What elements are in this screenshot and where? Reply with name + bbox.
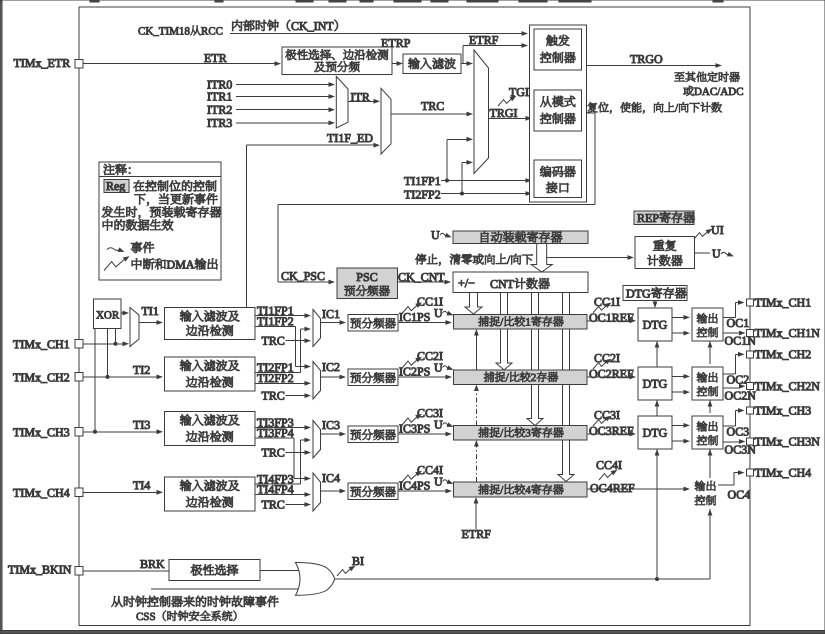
wire TI2 [79,376,157,378]
text 输出控制 4 [695,481,705,491]
wire XOR out [121,312,123,314]
label TRC ch4 [262,501,269,509]
interrupt UI [694,227,714,239]
wire to OR gate [260,570,299,572]
wire TI2FP2 riser [461,162,463,193]
rail OC3 to OC2 control [709,400,711,413]
wire TI2FP2 [441,193,526,195]
label OC4REF [591,484,599,492]
label IC4PS [399,482,402,490]
box DTG3 [638,416,672,449]
label TIMx_CH2 [755,350,762,358]
box 极性选择、边沿检测及预分频 [282,47,392,75]
wire TRGI [489,117,527,119]
label 复位，使能，向上/向下计数 [588,102,598,112]
label CC1I right [595,298,602,306]
label TI2 [133,366,140,374]
wire OC2N [723,387,740,389]
wires DTG1 to output control [672,316,684,318]
wire IC2PS [398,376,446,378]
label ETRP [381,39,387,47]
label IC2 [322,363,325,371]
label ETR [204,54,210,62]
label ETRF [469,36,475,44]
pad TIMx_CH2N [747,383,754,390]
wire IC4PS [398,490,446,492]
pad TIMx_BKIN [75,567,83,575]
mux ITR select [336,76,348,128]
label TI1FP1 [404,177,411,185]
wire TI1FP1 to IC1 [255,315,305,317]
label TI1 [142,307,149,315]
mux TRC select [381,88,391,154]
wire IC4 out [321,490,341,492]
label CC4I right [597,461,604,469]
interrupt CC4I left [402,469,423,482]
wire CK_INT [230,33,522,35]
event U ch2 [434,364,442,372]
label box REP寄存器 [634,211,694,225]
pad TIMx_CH2 [747,351,754,358]
interrupt CC2I left [402,355,423,368]
wire TI4FP3 cross to IC3 [255,483,301,485]
event U ch3 [434,421,442,429]
label ITR3 [207,119,210,127]
hollow arrow ARR to CNT [531,244,552,273]
label OC1REF [590,314,598,322]
label OC2N [725,392,733,400]
label TIMx_CH2N [755,382,762,390]
wire TRC ch4 [286,504,306,506]
rail brake to DTGs [656,449,658,579]
label 停止，清零或向上/向下 [415,254,426,265]
label TIMx_CH1N [755,329,762,337]
wire TRC [391,113,467,115]
pad TIMx_CH3 [747,407,754,414]
label TI2FP1 [257,364,264,372]
box CNT计数器 [453,272,588,293]
pad TIMx_CH4 [747,469,754,476]
wire TI4FP4 to IC4 [255,494,305,496]
box 重复计数器 [635,237,695,269]
label BRK [140,560,147,568]
label IC1PS [399,313,402,321]
note Reg register symbol [104,180,129,193]
box 预分频器 ch4 [348,483,398,500]
wire IC3PS [398,433,446,435]
hollow arrow CNT to CC1 [465,293,482,315]
mux TI1 [130,308,139,347]
label UI [711,226,719,234]
box 编码器接口 [534,160,582,198]
label OC2 [727,376,735,384]
XOR input risers [94,329,96,432]
wire CSS [151,588,303,590]
label TIMx_ETR [14,59,21,67]
wire ETRF to trigger controller [462,46,464,64]
label IC4 [322,474,325,482]
dashed arrow CC3 to CC2 [475,390,477,426]
interrupt CC3I right [593,414,613,426]
event U into ARR [431,231,439,239]
label CC2I right [595,354,602,362]
label IC1 [322,310,325,318]
label TIMx_CH2 [13,374,20,382]
wire ITR3 [236,122,329,124]
wire TI2FP2 to IC2 [255,382,305,384]
wire BI rail [335,578,710,580]
label box DTG寄存器 [623,286,687,301]
note text line3 发生时，预装载寄存器 [102,206,113,217]
wire TRGO [587,65,717,67]
wire TIMx_CH1 to mux [79,343,123,345]
label CC3I right [595,411,602,419]
label TRC ch3 [262,449,269,457]
label TI2FP2 [404,191,411,199]
box 预分频器 ch1 [348,315,398,332]
label 至其他定时器 [675,72,685,81]
wire CK_CNT [398,281,446,283]
wire BRK [79,570,169,572]
event U ch1 [434,309,442,317]
wire TI3 [79,431,157,433]
label OC3N [725,446,733,454]
interrupt CC1I left [402,300,423,313]
label TGI [509,88,516,96]
note label 中断和DMA输出 [132,259,142,270]
wire ETRF to mux [461,63,467,65]
box 预分频器 ch2 [348,369,398,386]
pad TIMx_CH1 [747,299,754,306]
note text line4 中的数据生效 [103,220,113,231]
label TIMx_BKIN [8,566,15,574]
label CC4I left [418,466,425,474]
page bottom border [0,631,825,634]
interrupt CC1I right [593,300,613,312]
box 输出控制 2 [692,367,723,400]
box 极性选择 brake [169,560,260,581]
rail OC4 to OC3 control [709,449,711,478]
wire TI1FP2 cross to IC2 [255,326,296,328]
label CSS（时钟安全系统） [136,613,142,620]
note text line2 下，当更新事件 [135,194,146,205]
wire OC3 [723,425,736,427]
wire ITR0 [236,84,329,86]
label TI2FP2 [257,374,264,382]
box 输入滤波及边沿检测 ch2 [165,357,256,391]
label TIMx_CH3 [755,407,762,415]
label TI1F_ED [327,134,334,142]
wire TI2FP1 cross to IC1 [255,371,301,373]
wire TI1FP1 riser [446,139,448,180]
interrupt CC4I right [599,468,619,480]
label OC1 [727,319,735,327]
label 从时钟控制器来的时钟故障事件 [112,596,123,607]
pad TIMx_CH2 [75,373,83,381]
wire OC1 [723,316,736,318]
wire ETR [79,63,275,65]
label BI [352,557,359,565]
register 捕捉/比较4寄存器 [454,482,588,497]
wire OC3REF [587,433,630,435]
top edge cut-off text sliver [90,0,99,2]
wire slave-mode to CK_PSC [587,112,596,114]
pad TIMx_CH3 [75,428,83,436]
pad TIMx_ETR [75,59,83,67]
mux TRGI select [474,50,489,174]
wire OC2REF [587,376,630,378]
label ITR [351,93,354,101]
rail OC2 to OC1 control [709,341,711,364]
wire TRC ch2 [286,395,306,397]
label TI3FP3 [257,419,264,427]
label IC2PS [399,368,402,376]
wire TI3FP4 cross to IC4 [255,437,294,439]
box XOR [94,299,122,329]
label TRC [421,102,428,110]
hollow arrow CNT to CC2 [496,293,512,371]
rail DTG2 to DTG1 [656,341,658,367]
wire ITR [348,100,374,102]
wire OC4 [718,484,734,486]
rail brake to OC4 control [709,509,711,579]
hollow arrow CNT to CC4 [558,293,574,482]
note interrupt icon [104,254,131,270]
wire TI4 [79,491,157,493]
wire TI3FP3 to IC3 [255,427,305,429]
label TRC ch1 [262,337,269,345]
mux IC1 [313,310,321,347]
label TIMx_CH1 [13,340,20,348]
label ITR1 [207,93,210,101]
label TI4FP4 [257,485,264,493]
label TI3 [133,421,140,429]
label CK_CNT [399,273,406,281]
label TRC ch2 [262,392,269,400]
label TIMx_CH4 [13,489,20,497]
register 自动装载寄存器 [453,231,588,244]
label CK_PSC [282,272,289,280]
wire OC1N [723,332,740,334]
register PSC预分频器 [337,268,398,299]
label TRGI [490,109,497,117]
label IC3PS [399,425,402,433]
wire ETRF to CC4 [475,503,477,529]
wires DTG3 to output control [672,424,684,426]
box 从模式控制器 [534,90,582,131]
mux IC4 [313,473,321,511]
wire OC3N [723,441,740,443]
pad TIMx_CH1N [747,330,754,337]
box DTG2 [638,367,672,400]
label TIMx_CH3 [13,428,20,436]
wire IC1PS [398,322,446,324]
note title 注释： [104,164,115,175]
wire TI1FP1 [441,180,526,182]
label 内部时钟（CK_INT） [232,20,242,31]
label TIMx_CH4 [755,469,762,477]
wire IC3 out [321,433,341,435]
mux IC2 [313,362,321,400]
wire TI1 [139,322,157,324]
label OC3REF [590,427,598,435]
diagram outer frame [79,7,750,626]
label TIMx_CH1 [755,299,762,307]
wire IC2 out [321,376,341,378]
label TI1FP2 [257,317,264,325]
box 输入滤波及边沿检测 ch1 [165,308,256,340]
wires DTG2 to output control [672,375,684,377]
box 预分频器 ch3 [348,426,398,443]
label OC4 [728,491,736,499]
pad TIMx_CH1 [75,340,83,348]
wire TRC ch1 [286,340,306,342]
label OC1N [725,337,733,345]
label TIMx_CH3N [755,438,762,446]
note text line1 在控制位的控制 [134,181,145,192]
label TI4FP3 [257,475,264,483]
label TI3FP4 [257,429,264,437]
label 或DAC/ADC [683,86,693,96]
group box trigger/slave/encoder [530,25,587,202]
mux IC3 [313,421,321,459]
label OC3 [727,428,735,436]
box 输入滤波及边沿检测 ch4 [165,477,256,511]
label ITR2 [207,106,210,114]
wire OC2 [723,373,736,375]
wire TI1F_ED [246,145,248,307]
label OC2REF [590,370,598,378]
label CC2I left [418,352,425,360]
register 捕捉/比较3寄存器 [454,426,588,441]
label ETRF bottom [462,530,468,538]
wire TRC ch3 [286,452,306,454]
label CK_TIM18从RCC [138,27,144,34]
page left edge border [0,1,2,634]
label IC3 [322,421,325,429]
wire ETRP [392,63,397,65]
box 输出控制 3 [692,416,723,449]
label CC3I left [418,409,425,417]
box 输出控制 1 [692,308,723,341]
label TI4 [133,481,140,489]
wire DTG register to DTG1 [654,301,656,303]
interrupt CC2I right [593,357,613,369]
box DTG1 [638,308,672,341]
pad TIMx_CH4 [75,488,83,496]
interrupt CC3I left [402,412,423,425]
arrow CC2 to CC1 [475,335,477,370]
box 输入滤波及边沿检测 ch3 [165,412,256,446]
interrupt TGI [498,94,518,106]
pad TIMx_CH3N [747,438,754,445]
wire OC4REF [587,488,684,490]
wire OC1REF [587,320,630,322]
event U out [695,252,711,254]
label TRGO [630,55,637,63]
label ITR0 [207,81,210,89]
note box 注释 [99,162,221,280]
interrupt BI [337,564,357,576]
note event icon [107,247,125,254]
wire ITR2 [236,109,329,111]
rail DTG3 to DTG2 [656,400,658,416]
wire ARR to repetition counter [547,257,628,259]
box 输入滤波 [403,54,461,74]
OR gate [296,562,335,595]
label TI1FP1 [257,307,264,315]
label CC1I left [418,298,425,306]
box 触发控制器 [534,29,582,70]
event U ch4 [434,478,442,486]
wire ITR1 [236,96,329,98]
hollow arrow CNT to CC3 [527,293,543,426]
dashed arrow CC4 to CC3 [475,446,477,482]
wire IC1 out [321,322,341,324]
register 捕捉/比较1寄存器 [454,315,588,330]
register 捕捉/比较2存器 [454,370,588,385]
note label 事件 [131,242,142,253]
